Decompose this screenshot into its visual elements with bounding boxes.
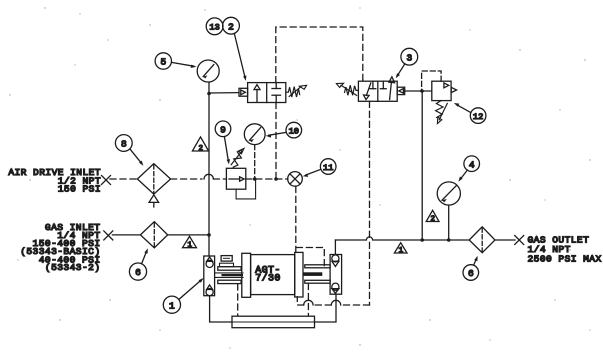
warning triangle 2 air (192, 137, 208, 151)
wire dashed pilot from valve3 down right side of pump (369, 101, 371, 237)
svg-text:10: 10 (289, 126, 299, 136)
svg-text:13: 13 (209, 23, 219, 33)
wire dashed pilot loop valve2 to valve3 top (276, 27, 363, 83)
wire dashed branch to right barrel top (296, 248, 324, 267)
wire dashed barrel vents to muffler (237, 284, 239, 316)
valve V2 pilot box (239, 88, 248, 96)
regulator feedback loop (236, 179, 256, 199)
valve V3 left position arrow down (366, 83, 370, 95)
svg-text:2: 2 (431, 215, 436, 223)
svg-text:6: 6 (135, 267, 141, 278)
vent muffler 11 circle-X (288, 172, 303, 187)
air inlet port X (102, 176, 111, 185)
wire right vertical from (422,91) to outlet line (421, 91, 423, 240)
svg-text:11: 11 (323, 163, 333, 173)
node junction dot (448.7,240) (447, 238, 451, 242)
svg-text:3: 3 (406, 52, 412, 63)
svg-text:7/30: 7/30 (255, 273, 281, 285)
valve V2 spring (286, 87, 300, 97)
wire filter to junction (168, 234, 209, 236)
svg-text:1: 1 (187, 242, 192, 250)
node junction dot (276,179) (274, 177, 278, 181)
pump left check valve block (204, 256, 215, 296)
node junction dot at (209,93.5) (207, 92, 211, 96)
relief valve spring (436, 101, 443, 118)
balloon 6 gas outlet (463, 265, 479, 281)
wire valve3 to relief valve (405, 90, 432, 92)
gauge G5 (197, 60, 219, 82)
svg-text:5: 5 (160, 57, 166, 68)
balloon 3 (401, 48, 418, 65)
relief valve V12 body (432, 81, 451, 100)
valve V2 left position flow arrow (256, 89, 258, 101)
pump left gas barrel (218, 267, 241, 271)
wire air inlet dashed to filter (110, 178, 137, 180)
valve V2 right position blocked symbol (275, 83, 277, 89)
balloon 2 (223, 17, 240, 34)
filter F6L gas inlet filter diamond (140, 222, 167, 248)
svg-text:9: 9 (220, 124, 226, 135)
wire gas outlet line with hop over dashed (335, 237, 469, 240)
svg-text:8: 8 (121, 139, 127, 150)
filter F8 air filter diamond (137, 164, 170, 195)
filter F8 drain (149, 195, 159, 203)
svg-text:1: 1 (169, 300, 175, 311)
wire dashed air line regulator to vent 11 (246, 178, 288, 180)
node junction dot (422.2,240) (420, 238, 424, 242)
wire dashed bottom pilot to cylinder cap with hops (341, 304, 370, 306)
wire right drain to muffler (315, 294, 337, 322)
regulator R9 body (226, 168, 245, 189)
balloon 1 (163, 296, 180, 313)
gas outlet port X (515, 236, 524, 245)
balloon 4 (464, 156, 480, 172)
gauge G4 (437, 182, 460, 205)
warning triangle 1 outlet side (394, 243, 407, 253)
svg-text:150 PSI: 150 PSI (58, 184, 101, 195)
pump air cylinder (242, 253, 251, 297)
balloon 12 (470, 108, 486, 124)
valve V3 pilot box right (397, 87, 405, 94)
pump right gas barrel (305, 265, 330, 268)
svg-text:12: 12 (473, 112, 483, 122)
svg-text:1: 1 (399, 247, 404, 255)
warning triangle 1 gas inlet (183, 236, 197, 247)
regulator spring (233, 150, 242, 168)
balloon 10 (286, 122, 302, 138)
balloon 9 (215, 121, 231, 137)
svg-text:(53343-2): (53343-2) (45, 262, 101, 273)
pump vent box on left barrel (221, 256, 232, 262)
svg-text:4: 4 (469, 159, 475, 170)
relief valve pilot dashed (422, 71, 442, 90)
svg-text:2: 2 (228, 21, 234, 32)
filter F6R gas outlet filter diamond (469, 227, 495, 253)
wire dashed from vent 11 down to cylinder cap (295, 186, 297, 252)
wire gas inlet to filter (112, 234, 140, 236)
gauge G10 (244, 124, 265, 145)
balloon 5 (155, 53, 171, 69)
svg-text:2: 2 (198, 145, 203, 153)
relief valve vent triangle (451, 87, 457, 92)
gas inlet port X (104, 231, 113, 240)
wire main vertical gas line x=209 (208, 82, 210, 256)
node junction dot gas inlet (209,235) (207, 233, 211, 237)
valve V3 pilot valve body (358, 81, 397, 101)
balloon 8 (115, 135, 132, 152)
svg-text:6: 6 (468, 268, 474, 279)
node junction dot (254.7,179) (253, 177, 257, 181)
muffler base rectangle (232, 321, 315, 323)
valve V3 spring left (345, 85, 359, 95)
pump right check valve block (330, 255, 342, 295)
wire pilot line from junction to valve 2 pilot (209, 92, 239, 94)
warning triangle 2 outlet side (426, 210, 439, 221)
balloon 11 (320, 159, 336, 175)
balloon 13 (206, 18, 223, 35)
wire dashed below valve2 down to air line (275, 103, 277, 179)
wire left drain to muffler (210, 296, 232, 322)
wire outlet riser from right check block (334, 240, 336, 255)
svg-text:2500 PSI MAX: 2500 PSI MAX (528, 253, 602, 264)
balloon 6 gas inlet (129, 263, 146, 280)
valve V3 right position arrow up (382, 81, 384, 89)
wire dashed air line with hop over gas line (171, 178, 202, 180)
node junction dot (422,91) (420, 89, 424, 93)
valve V2 cycling valve body (248, 83, 286, 103)
